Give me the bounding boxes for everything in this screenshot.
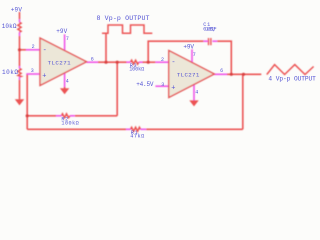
svg-text:8 Vp-p OUTPUT: 8 Vp-p OUTPUT: [97, 15, 150, 22]
svg-text:+: +: [42, 72, 46, 80]
svg-text:-: -: [171, 59, 175, 67]
svg-text:6: 6: [91, 56, 94, 62]
svg-text:0.10.1µF#181;F: 0.10.1µF#181;F: [203, 26, 216, 32]
svg-text:7: 7: [193, 52, 196, 58]
svg-text:6: 6: [220, 68, 223, 74]
svg-text:+9V: +9V: [56, 28, 67, 35]
svg-text:+9V: +9V: [11, 6, 23, 13]
svg-text:+4.5V: +4.5V: [136, 81, 154, 88]
svg-text:+9V: +9V: [183, 44, 194, 51]
svg-text:100kΩ: 100kΩ: [129, 66, 144, 72]
svg-text:4: 4: [195, 89, 198, 95]
svg-text:2: 2: [161, 57, 164, 63]
svg-text:4 Vp-p OUTPUT: 4 Vp-p OUTPUT: [268, 75, 316, 82]
svg-text:100kΩ: 100kΩ: [61, 120, 78, 126]
svg-text:7: 7: [66, 36, 69, 42]
svg-text:4: 4: [66, 79, 69, 85]
svg-text:+: +: [171, 85, 175, 93]
svg-text:-: -: [43, 47, 47, 55]
svg-text:10kΩ: 10kΩ: [2, 69, 18, 76]
svg-text:10kΩ: 10kΩ: [2, 23, 17, 30]
svg-text:3: 3: [161, 82, 164, 88]
svg-text:47kΩ: 47kΩ: [130, 134, 144, 140]
svg-text:2: 2: [32, 44, 35, 50]
svg-text:TLC271: TLC271: [48, 59, 72, 66]
svg-text:TLC271: TLC271: [177, 72, 200, 79]
svg-text:3: 3: [31, 68, 34, 74]
